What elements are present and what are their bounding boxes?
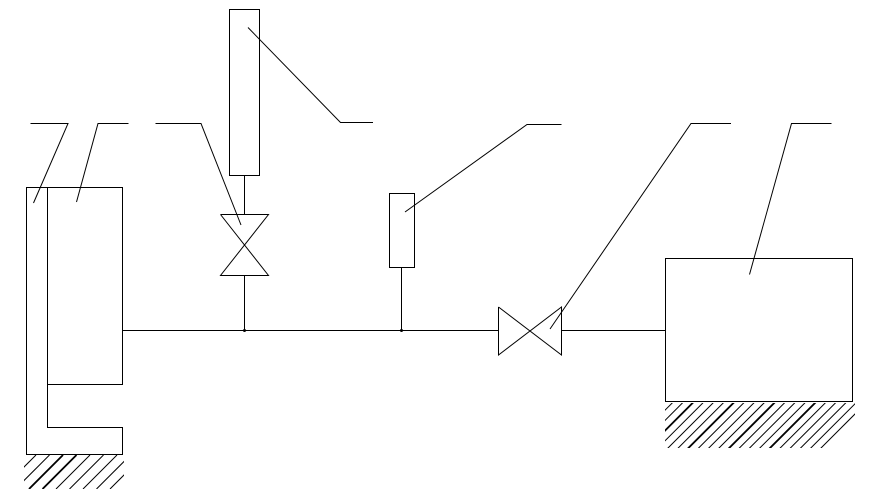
stem above valve1 xyxy=(244,175,246,215)
ground hatch right xyxy=(610,395,874,455)
junction node A xyxy=(243,329,246,332)
ground hatch left xyxy=(0,455,144,489)
leader tick 6 xyxy=(550,124,731,330)
small gauge rectangle xyxy=(390,194,415,268)
leader tick 7 xyxy=(750,124,832,275)
riser from valve1 xyxy=(244,276,246,331)
junction node B xyxy=(400,329,403,332)
leader tick 3 xyxy=(156,124,242,226)
right block rectangle xyxy=(666,259,853,402)
leader tick 5 xyxy=(405,125,562,213)
valve V2 horizontal bowtie xyxy=(499,307,562,355)
leader tick 4 xyxy=(248,28,373,123)
leader tick 2 xyxy=(77,124,129,203)
valve V1 vertical bowtie xyxy=(221,215,269,276)
main pipe line right of valve xyxy=(562,330,666,332)
tall tank rectangle xyxy=(230,10,260,176)
cylinder body left xyxy=(27,188,124,455)
main pipe line xyxy=(123,330,499,332)
riser from gauge xyxy=(401,267,403,331)
piston rectangle xyxy=(48,188,123,385)
leader tick 1 xyxy=(31,124,69,204)
